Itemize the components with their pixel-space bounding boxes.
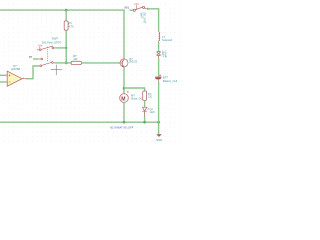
wire: coil to lamp <box>158 42 160 51</box>
wire: switch2 pole to junction <box>55 62 66 64</box>
svg-text:2N2222: 2N2222 <box>129 62 138 64</box>
lamp D? (X symbol) <box>157 52 161 58</box>
node: junction top rail / divider column <box>65 9 68 12</box>
wire: top rail to collector column <box>0 10 124 59</box>
transistor Q? <box>120 57 138 68</box>
node: junction switch1 output <box>65 47 67 49</box>
svg-text:Battery_Cell: Battery_Cell <box>163 79 178 83</box>
node: junction led/rail <box>143 121 146 124</box>
svg-text:SW_SPST: SW_SPST <box>143 12 146 24</box>
solenoid L? coil <box>159 31 160 42</box>
wire: into switch section2 throw <box>33 58 38 60</box>
svg-text:SW_Push_DPDT: SW_Push_DPDT <box>42 42 62 45</box>
node: junction at switch output <box>147 8 149 10</box>
svg-text:BT?: BT? <box>163 75 169 79</box>
wire: resistor to led <box>144 100 146 107</box>
node: junction battery/rail <box>157 121 160 124</box>
wire: divider column upper <box>65 10 67 21</box>
svg-text:Motor_DC: Motor_DC <box>131 97 143 100</box>
wire: branch to led resistor <box>124 88 145 91</box>
svg-text:LED: LED <box>150 111 155 114</box>
svg-text:N2 9VBAT 9V_OFF: N2 9VBAT 9V_OFF <box>110 126 134 130</box>
wire: junction to base resistor <box>66 62 71 64</box>
ground GND <box>156 134 162 137</box>
battery BT? <box>155 75 178 83</box>
wire: switch to right column <box>147 9 159 31</box>
wire: motor to bottom rail <box>123 102 125 122</box>
wire: opamp output to switch2 <box>26 66 39 79</box>
svg-text:SW?: SW? <box>52 37 59 41</box>
node: junction motor/rail <box>123 121 126 124</box>
switch SW? SPST (top right) <box>133 6 146 11</box>
wire stem +9V <box>39 47 41 49</box>
wire: opamp +input <box>0 74 6 76</box>
wire: emitter down to motor <box>123 67 125 94</box>
switch SW? section 2 <box>38 58 55 67</box>
svg-text:LAMP: LAMP <box>164 51 167 58</box>
wire: stub to switch SW? (top right) <box>129 9 133 11</box>
anchor cross <box>51 65 62 75</box>
svg-text:LM358: LM358 <box>11 67 21 71</box>
wire: opamp -input <box>0 81 6 83</box>
LED D? <box>142 107 154 116</box>
resistor R? 10k (base) <box>71 54 81 65</box>
svg-text:LED?: LED? <box>161 51 164 58</box>
wire: base resistor to transistor <box>81 62 120 64</box>
switch SW? section 1 <box>37 46 55 51</box>
wire: battery to rail <box>158 81 160 122</box>
wire: led pin to bottom rail <box>144 117 146 123</box>
resistor R? 4.7k <box>64 21 74 30</box>
wire: lamp to battery <box>158 58 160 77</box>
svg-text:10k: 10k <box>73 57 78 61</box>
svg-text:Q?: Q? <box>129 57 133 61</box>
svg-text:120: 120 <box>148 96 153 99</box>
switch linkage dashed <box>47 47 49 62</box>
svg-text:4.7k: 4.7k <box>68 25 74 29</box>
svg-text:Solenoid: Solenoid <box>162 38 173 42</box>
resistor R? 120 (led) <box>143 91 153 100</box>
svg-text:M: M <box>121 96 125 102</box>
op-amp U? LM358 <box>6 64 26 86</box>
wire: switch1 to divider column <box>55 47 66 49</box>
wire: divider column lower <box>65 30 67 63</box>
wire: rail to gnd <box>158 122 160 134</box>
wire: bottom rail <box>0 121 159 123</box>
svg-text:9V1: 9V1 <box>124 6 129 10</box>
svg-text:GND: GND <box>156 138 162 142</box>
node: junction mid row <box>65 62 68 65</box>
node: junction emitter / led branch <box>123 87 126 90</box>
motor M? <box>120 91 143 102</box>
